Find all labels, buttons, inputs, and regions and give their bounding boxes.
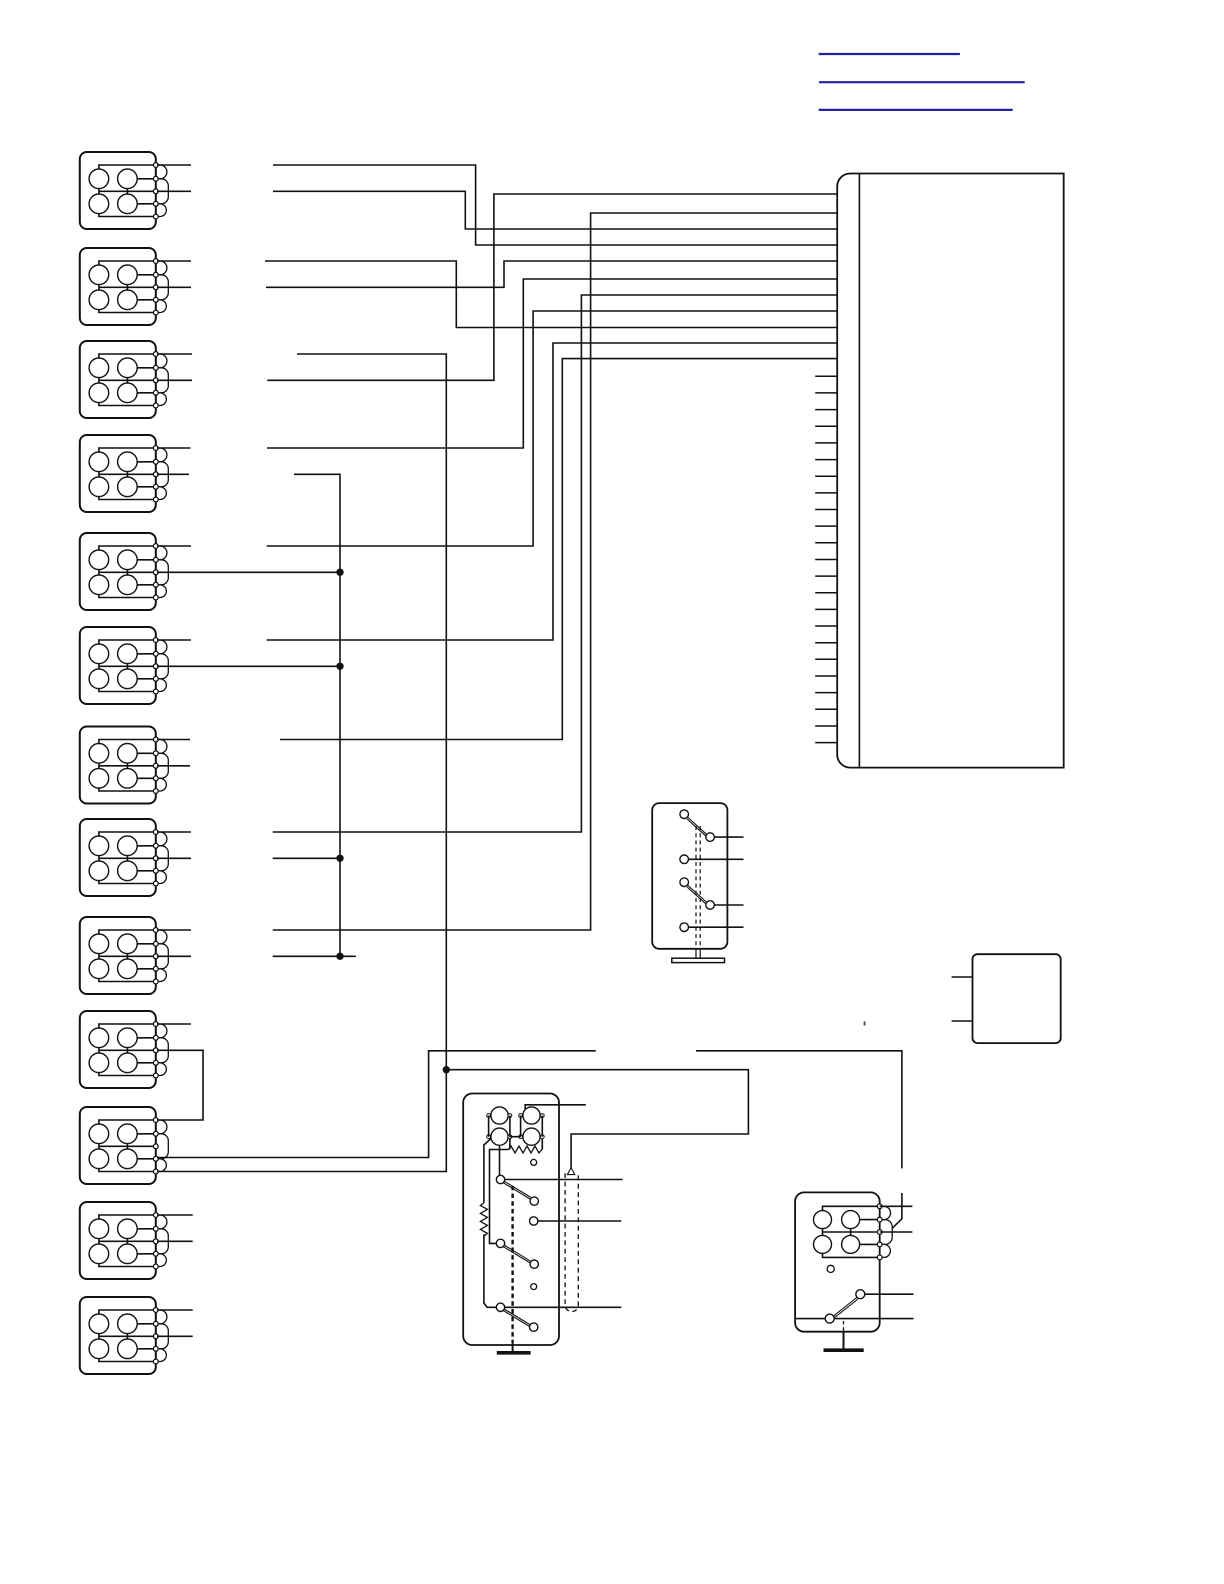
combination switch aux circle	[827, 1265, 834, 1272]
wire CN9 pin3 to bus end	[157, 955, 356, 957]
combination switch connector pins	[877, 1204, 882, 1260]
combination switch inner wires	[823, 1206, 880, 1257]
connector block CN5	[80, 533, 169, 610]
resistor R1 horizontal	[509, 1146, 542, 1153]
wire CN13 pin1 stub	[157, 1309, 193, 1311]
wire CN8 pin1 to ECU pin7	[157, 295, 837, 832]
stray mark	[864, 1022, 866, 1026]
wire CN7 pin1 to ECU pin11	[157, 359, 837, 740]
connector block CN10	[80, 1011, 169, 1088]
wire CN4 pin1 to ECU pin6	[157, 279, 837, 448]
combination switch link dashed	[843, 1321, 845, 1349]
connector block CN7	[80, 727, 169, 804]
combination switch connector tabs	[880, 1206, 893, 1257]
relay contact 2 arm	[503, 1245, 530, 1263]
combination switch contact lower	[825, 1314, 834, 1323]
relay contact 2 mate	[530, 1260, 538, 1268]
dashed actuator stadium	[565, 1173, 578, 1311]
wire CN1 pin3 to ECU pin3	[157, 191, 837, 229]
relay ground bar	[497, 1351, 531, 1355]
left branch wire with resistor R2	[484, 1139, 496, 1308]
wire CN6 pin3 to bus	[157, 665, 340, 667]
wire CN10 pin3 to CN11 pin1	[157, 1050, 203, 1120]
wire CN10 pin1 stub	[157, 1023, 191, 1025]
resistor R1 end links	[490, 1139, 543, 1244]
connector block CN9	[80, 917, 169, 994]
wire CN5 pin1 to ECU pin8	[157, 311, 837, 546]
relay aux circle c	[531, 1284, 537, 1290]
switch box S1	[652, 803, 727, 949]
flasher lamps	[491, 1107, 540, 1145]
relay box stubs	[952, 977, 973, 1021]
resistor R2 vertical	[480, 1203, 487, 1236]
switch S1 ground pedestal	[672, 958, 725, 962]
relay contact 3 mate	[530, 1323, 538, 1331]
connector block CN3	[80, 341, 169, 418]
wire CN7 pin3 stub	[157, 765, 190, 767]
combination switch connector box	[795, 1192, 880, 1331]
relay aux circle b	[530, 1217, 538, 1225]
connector block CN2	[80, 248, 169, 325]
relay contact 1 arm	[503, 1181, 530, 1199]
hyperlink underline 2	[819, 81, 1025, 83]
connector block CN4	[80, 435, 169, 512]
ECU connector stub pins	[815, 376, 837, 742]
relay contact 2	[496, 1239, 504, 1247]
wire CN2 pin3 to ECU pin5	[157, 261, 837, 287]
lamp terminals	[487, 1114, 544, 1139]
combination switch ground bar	[824, 1348, 864, 1352]
switch S1 contacts	[680, 810, 714, 932]
switch S1 stubs	[689, 837, 744, 927]
switch S1 lever arms	[687, 817, 707, 903]
wire CN3 pin3 to ECU pin1	[157, 194, 837, 380]
wire CN6 pin1 to ECU pin10	[157, 343, 837, 640]
combination switch lamps	[814, 1211, 860, 1254]
relay contact 1 mate	[530, 1197, 538, 1205]
connector block CN11	[80, 1107, 169, 1184]
relay box	[973, 954, 1061, 1043]
connector block CN13	[80, 1297, 169, 1374]
junction dot	[336, 855, 343, 862]
wire CN2 pin1 to ECU pin9	[157, 261, 837, 328]
wire junction branch to flasher triangle	[446, 1070, 748, 1168]
combination switch lever arm	[834, 1298, 858, 1318]
connector block CN1	[80, 152, 169, 229]
wire CN5 pin3 to bus	[157, 571, 340, 573]
wire CN8 pin3 to bus	[157, 857, 340, 859]
relay aux circle a	[531, 1159, 537, 1165]
wire CN12 pin1 stub	[157, 1214, 193, 1216]
wire lamp to contact1	[499, 1145, 501, 1175]
wire lamp top feed	[525, 1105, 586, 1110]
relay output stubs	[505, 1180, 623, 1308]
hyperlink underline 3	[819, 109, 1013, 111]
relay contact 3 arm	[503, 1309, 530, 1327]
ECU control unit box	[837, 174, 1063, 768]
wire CN12 pin3 stub	[157, 1240, 193, 1242]
junction dot	[443, 1066, 450, 1073]
junction dot	[336, 663, 343, 670]
wire CN13 pin3 stub	[157, 1335, 193, 1337]
actuator triangle	[567, 1168, 574, 1175]
wire CN9 pin1 to ECU pin2	[157, 213, 837, 930]
wire CN1 pin1 to ECU pin4	[157, 165, 837, 245]
connector block CN8	[80, 819, 169, 896]
switch S1 mechanical link dashed	[696, 826, 700, 958]
wire CN4 pin3 to bus	[157, 474, 340, 956]
wire CN11 pin4 to relay connector pin	[157, 1051, 902, 1229]
combination switch contact upper	[856, 1290, 865, 1299]
junction dot	[336, 953, 343, 960]
hyperlink underline 1	[819, 53, 960, 55]
lamp interconnect wires	[489, 1116, 543, 1137]
relay mechanical link dashed	[511, 1186, 513, 1351]
connector block CN6	[80, 627, 169, 704]
wire CN3 pin1 / CN11 pin5 riser	[157, 354, 446, 1172]
flasher relay assembly box	[463, 1094, 559, 1346]
junction dot	[336, 569, 343, 576]
relay contact 1	[496, 1175, 504, 1183]
relay contact 3	[496, 1303, 504, 1311]
connector block CN12	[80, 1202, 169, 1279]
combination switch stubs	[795, 1206, 913, 1318]
